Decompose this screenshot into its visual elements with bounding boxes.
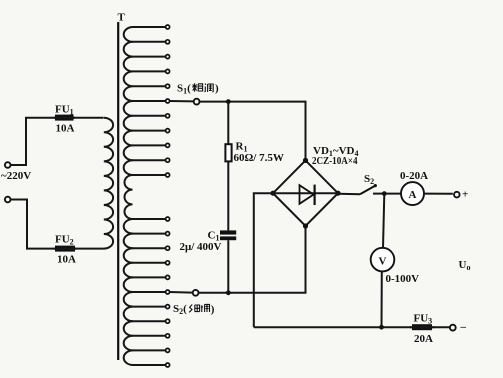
secondary tap terminal upper8 [166,129,170,133]
wire (switch fixed contact) [373,193,384,195]
secondary tap wire upper4 [133,70,166,72]
glyph 调 (adjust) [204,84,213,92]
wire [11,200,55,249]
secondary tap wire upper3 [133,56,166,58]
secondary tap terminal lower2 [166,232,170,236]
secondary tap terminal lower11 [166,363,170,367]
terminal minus output [450,325,456,331]
capacitor C1 (bottom plate) [220,236,236,240]
secondary tap wire lower9 [133,335,166,337]
wire (junction to ammeter) [384,193,400,195]
secondary tap wire lower11 [133,364,166,366]
secondary tap wire upper8 [133,130,166,132]
fuse FU1 [54,115,76,121]
secondary tap wire upper7 [133,115,166,117]
wire (junction down to voltmeter) [383,194,384,248]
secondary tap wire upper1 [133,26,166,28]
secondary tap wire lower10 [133,349,166,351]
secondary tap terminal upper3 [166,55,170,59]
secondary tap terminal lower6 [166,290,170,294]
wire [74,117,104,119]
voltmeter V [371,248,395,272]
secondary tap wire upper5 [133,85,166,87]
diode symbol inside bridge [300,185,314,204]
fuse FU2 [54,246,77,252]
svg-text:): ) [211,303,215,315]
wire (voltmeter to minus rail) [381,271,383,327]
wire [11,118,55,165]
diode cathode bar [314,185,316,205]
transformer core [117,22,119,360]
switch S1 contact circle [194,99,200,105]
secondary tap wire lower4 [133,262,166,264]
switch S2 blade tip dot [374,184,377,187]
fuse FU3 [410,324,434,330]
secondary tap wire lower6 [133,291,166,293]
svg-text:60Ω/ 7.5W: 60Ω/ 7.5W [234,152,284,164]
secondary tap wire lower1 [133,218,166,220]
wire (minus rail to FU3) [254,326,412,328]
glyph 粗 (coarse) [192,83,203,92]
secondary tap terminal upper9 [166,143,170,147]
junction (bridge top vertex) [303,158,308,163]
switch S2 contact circle [193,290,199,296]
svg-text:+: + [462,189,468,201]
svg-text:–: – [460,321,467,333]
wire (bridge internal line) [273,192,338,194]
secondary tap terminal upper7 [166,114,170,118]
wire (AC rail: S2 to bridge bottom) [199,226,306,293]
secondary tap terminal upper10 [166,158,170,162]
wire (FU3 to minus terminal) [432,326,450,328]
secondary tap wire upper6 [133,100,166,102]
secondary tap terminal upper5 [166,84,170,88]
capacitor C1 (top plate) [220,230,236,234]
wire (junction to R1) [227,102,229,145]
svg-text:10A: 10A [57,254,76,266]
svg-text:10A: 10A [56,123,75,135]
wire (ammeter to plus terminal) [425,193,453,195]
primary winding of T [104,118,113,249]
svg-text:V: V [379,255,387,267]
junction (R1 tap on S1 rail) [226,99,231,104]
secondary tap wire lower2 [133,233,166,235]
wire (R1 to C1) [227,161,229,230]
secondary tap terminal lower3 [166,246,170,250]
glyph 调 (adjust) [201,304,210,312]
terminal plus output [454,192,460,198]
wire (S1 to bridge top rail) [200,102,306,160]
secondary tap wire upper2 [133,41,166,43]
secondary tap wire upper9 [133,144,166,146]
terminal L1 (~220V top input terminal) [5,162,11,168]
secondary tap wire upper11 [133,174,166,176]
switch S2 blade (open knife) [360,186,375,195]
secondary tap wire lower5 [133,276,166,278]
secondary tap terminal lower1 [166,217,170,221]
secondary tap terminal upper11 [166,173,170,177]
junction (C1 on AC rail) [226,290,231,295]
secondary tap wire upper10 [133,159,166,161]
wire (S2 tap to movable contact) [170,291,193,294]
bridge rectifier VD1~VD4 (diamond) [273,160,338,226]
wire (bridge left vertex to minus rail) [254,193,273,327]
svg-text:A: A [409,189,417,201]
secondary tap terminal upper4 [166,69,170,73]
secondary tap terminal lower4 [166,261,170,265]
resistor R1 [225,144,231,161]
svg-text:20A: 20A [414,333,433,345]
secondary tap wire lower3 [133,247,166,249]
wire (S1 tap to movable contact) [170,100,194,102]
wire [75,248,104,250]
secondary tap terminal lower9 [166,334,170,338]
secondary winding lower turns (left arcs) [124,219,133,365]
svg-text:0-20A: 0-20A [400,170,428,182]
glyph 细 (fine) [189,305,199,313]
secondary winding upper turns (left arcs) [124,27,133,175]
junction (ammeter/voltmeter node) [382,191,387,196]
svg-text:T: T [118,11,126,23]
wire (bridge right vertex to switch S2) [338,193,360,195]
secondary tap wire lower8 [133,320,166,322]
secondary tap terminal lower5 [166,275,170,279]
secondary tap terminal upper6 [166,99,170,103]
junction (bridge right vertex) [335,191,340,196]
secondary tap terminal upper2 [166,40,170,44]
svg-text:2μ/ 400V: 2μ/ 400V [180,241,222,253]
junction (bridge bottom vertex) [303,223,308,228]
secondary tap terminal lower7 [166,305,170,309]
junction (bridge left vertex) [270,191,275,196]
svg-text:2CZ-10A×4: 2CZ-10A×4 [312,155,358,167]
svg-text:): ) [215,82,219,94]
svg-text:~220V: ~220V [1,170,31,182]
wire (C1 to AC rail) [227,240,229,292]
svg-text:0-100V: 0-100V [386,273,420,285]
ammeter A [401,182,424,205]
junction (voltmeter on minus rail) [379,325,384,330]
secondary tap terminal lower8 [166,319,170,323]
terminal L2 (~220V bottom input terminal) [5,197,11,203]
secondary tap terminal lower10 [166,348,170,352]
secondary tap terminal upper1 [166,25,170,29]
secondary tap wire lower7 [133,306,166,308]
secondary winding middle (untapped turns) [124,175,132,219]
